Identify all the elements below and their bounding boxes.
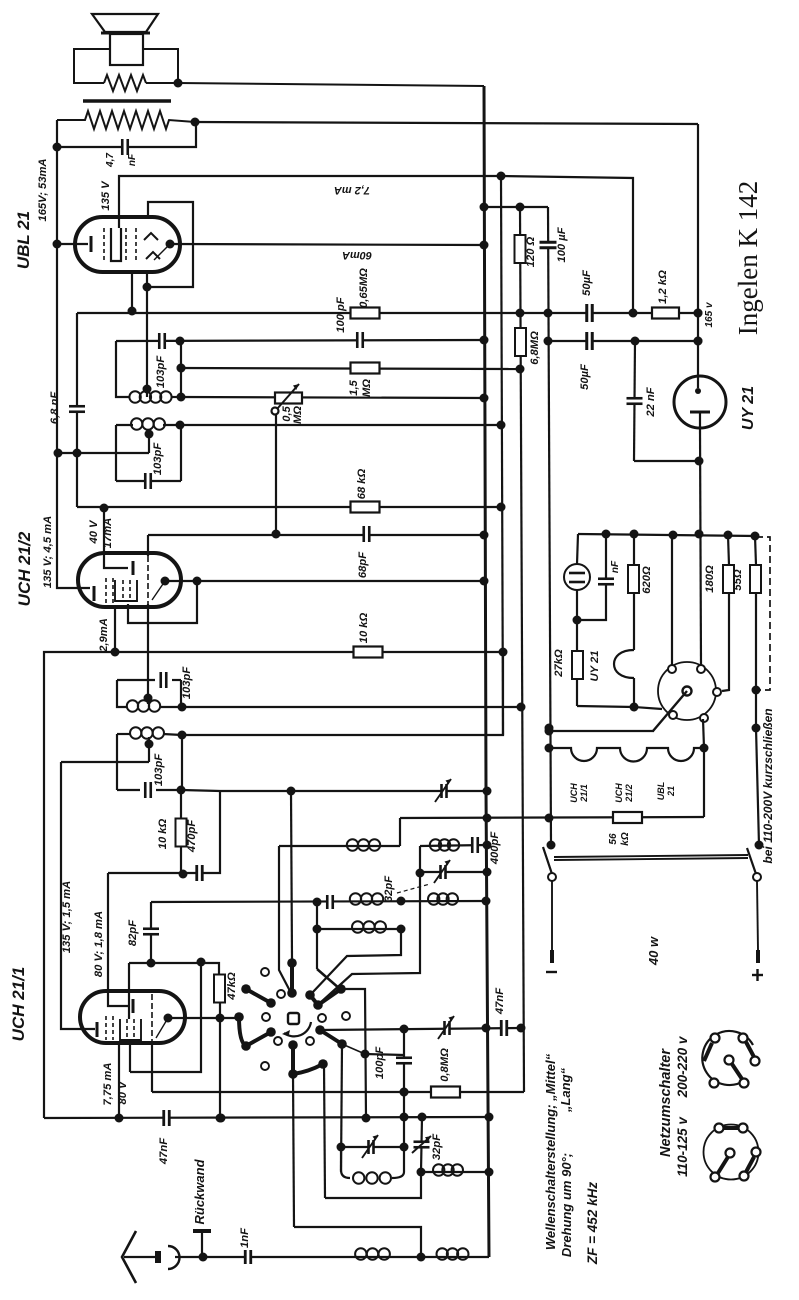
wire triode anode row y581 xyxy=(165,580,484,582)
tube UCH 21/1 xyxy=(80,991,185,1043)
svg-text:180Ω: 180Ω xyxy=(704,565,716,593)
plus terminal xyxy=(752,974,763,976)
heater chain humps xyxy=(549,748,704,762)
wire row y461 xyxy=(634,460,699,462)
resistor 10kΩ grid xyxy=(180,790,182,819)
svg-text:UCH 21/2: UCH 21/2 xyxy=(15,531,34,606)
capacitor nF heater xyxy=(577,534,606,620)
UY21 filament dot xyxy=(695,388,701,394)
wire column x698 rectifier xyxy=(697,124,699,376)
svg-text:MΩ: MΩ xyxy=(361,379,373,397)
capacitor 47nF AVC xyxy=(500,1019,508,1037)
svg-text:Drehung um 90°;: Drehung um 90°; xyxy=(559,1153,574,1257)
UBL screen box xyxy=(111,228,121,261)
svg-text:22 nF: 22 nF xyxy=(645,386,657,417)
svg-text:UCH: UCH xyxy=(614,783,624,803)
UCH2 grid box xyxy=(115,580,137,601)
wire row y1054 xyxy=(365,1054,404,1055)
svg-text:400pF: 400pF xyxy=(489,831,501,865)
resistor 27kΩ xyxy=(576,620,578,651)
capacitor 103pF T1p xyxy=(144,781,152,799)
svg-text:UY 21: UY 21 xyxy=(740,386,757,430)
svg-text:68 kΩ: 68 kΩ xyxy=(356,468,368,499)
svg-text:4,7: 4,7 xyxy=(105,153,116,168)
wire row y1227 xyxy=(294,1227,421,1257)
wire 4.7nF bypass loop xyxy=(57,122,196,147)
UBL diode plates xyxy=(144,233,158,240)
svg-text:32pF: 32pF xyxy=(383,875,395,902)
wire 55R to switch xyxy=(756,728,759,845)
antenna symbol xyxy=(122,1231,136,1283)
trimmer row1028 xyxy=(444,1020,451,1036)
tap wire T1p to cathode xyxy=(148,737,150,762)
svg-text:620Ω: 620Ω xyxy=(641,566,653,594)
resistor 180Ω xyxy=(728,535,729,565)
svg-text:UCH 21/1: UCH 21/1 xyxy=(9,967,28,1042)
wire 470pF row y873 xyxy=(108,791,220,873)
capacitor 103pF IF2sec xyxy=(158,332,166,350)
svg-text:80 V: 80 V xyxy=(117,1080,129,1105)
svg-text:165V; 53mA: 165V; 53mA xyxy=(37,158,49,221)
wire contact down x325 xyxy=(324,1064,325,1198)
wire row y929 xyxy=(317,928,401,930)
svg-text:Ingelen K 142: Ingelen K 142 xyxy=(733,181,763,335)
loudspeaker LS xyxy=(92,14,158,32)
UBL cathode wire xyxy=(57,243,88,245)
wire UCH2 screen x148 xyxy=(147,535,149,556)
UCH1 grid top lead xyxy=(128,963,130,1019)
wire anode row y1018 xyxy=(168,1017,239,1019)
link contact 317-340 xyxy=(317,969,340,989)
resistor 620Ω xyxy=(633,534,635,565)
selector plug 200-220V xyxy=(702,1031,753,1085)
coil L-ant input1 xyxy=(355,1248,366,1259)
resistor 0,8MΩ xyxy=(431,1087,460,1098)
wire osc row y846 right xyxy=(420,845,487,846)
svg-text:UCH: UCH xyxy=(569,783,579,803)
svg-text:Rückwand: Rückwand xyxy=(192,1158,207,1224)
svg-text:100 µF: 100 µF xyxy=(556,226,568,262)
dashed shorting link xyxy=(756,537,770,690)
wire triode anode lead x104 xyxy=(104,508,128,568)
svg-text:MΩ: MΩ xyxy=(292,406,304,424)
resistor voice-coil zigzag xyxy=(104,75,146,91)
wire antenna row y1257 xyxy=(175,1256,489,1258)
capacitor 1nF xyxy=(244,1249,252,1265)
svg-text:135 V; 4,5 mA: 135 V; 4,5 mA xyxy=(42,516,54,588)
UCH1 grid box xyxy=(120,1019,141,1040)
mains switch right pole xyxy=(755,841,764,850)
wire 47k to row1018 xyxy=(219,1002,221,1118)
wire row y706 xyxy=(577,706,662,709)
wire contact down x341 xyxy=(341,1044,342,1172)
tube UY 21 xyxy=(674,376,726,428)
svg-text:135 V: 135 V xyxy=(100,180,112,211)
wire UBL anode row y245 xyxy=(170,244,484,245)
svg-text:1nF: 1nF xyxy=(239,1227,251,1248)
resistor 68kΩ xyxy=(351,502,380,513)
svg-text:21/2: 21/2 xyxy=(624,784,634,803)
svg-text:50µF: 50µF xyxy=(581,269,593,296)
UBL anode loop xyxy=(147,202,193,287)
wire triode grid loop xyxy=(128,581,197,623)
rotor segment C elbow xyxy=(239,1017,271,1046)
chassis bar xyxy=(83,99,171,103)
wire UBL pin x147 to IF coil xyxy=(146,272,148,397)
trimmer row790 xyxy=(441,783,448,799)
rotor segment E xyxy=(320,1030,342,1044)
UBL grid dashes xyxy=(103,228,105,262)
IF tank T2 secondary loop xyxy=(116,341,130,397)
capacitor 4,7nF xyxy=(121,138,129,156)
svg-text:56: 56 xyxy=(608,833,619,845)
svg-text:165 v: 165 v xyxy=(704,301,715,327)
wire volume row y398 xyxy=(181,397,484,398)
svg-text:bei 110-200V kurzschließen: bei 110-200V kurzschließen xyxy=(761,708,775,863)
UCH1 shield pin x152 xyxy=(151,1043,153,1092)
IF tank T1 secondary loop xyxy=(117,680,127,707)
svg-text:ZF = 452 kHz: ZF = 452 kHz xyxy=(585,1182,600,1265)
svg-text:0,8MΩ: 0,8MΩ xyxy=(439,1048,451,1082)
svg-text:0,65MΩ: 0,65MΩ xyxy=(358,268,370,308)
svg-text:47nF: 47nF xyxy=(494,987,506,1015)
wire B+ top to rectifier column xyxy=(195,122,698,124)
svg-text:27kΩ: 27kΩ xyxy=(553,649,565,678)
trimmer 32pF vertical xyxy=(421,1117,422,1172)
junction bypass left xyxy=(53,143,62,152)
svg-text:68pF: 68pF xyxy=(357,551,369,578)
svg-text:21: 21 xyxy=(666,786,676,797)
UY21 heater hook xyxy=(614,650,634,678)
voltage selector rotor xyxy=(658,662,716,720)
svg-text:47nF: 47nF xyxy=(158,1137,170,1165)
svg-text:1,2 kΩ: 1,2 kΩ xyxy=(657,270,669,304)
IF tank T2 primary loop xyxy=(115,425,117,481)
capacitor 103pF T2p xyxy=(144,472,152,490)
UCH1 pin x119 xyxy=(118,1043,120,1118)
svg-text:Netzumschalter: Netzumschalter xyxy=(658,1048,674,1157)
wire rotor row y731 xyxy=(549,730,654,732)
wire cathode row y453 xyxy=(58,452,149,454)
svg-text:UBL 21: UBL 21 xyxy=(14,211,33,269)
svg-text:21/1: 21/1 xyxy=(579,784,589,803)
resistor 1,2kΩ xyxy=(652,308,679,319)
svg-text:55Ω: 55Ω xyxy=(732,569,744,590)
capacitor 82pF xyxy=(142,928,160,936)
UCH2 triode anode junction xyxy=(161,577,170,586)
capacitor 470pF xyxy=(196,864,204,882)
UCH1 cathode bar xyxy=(96,1022,99,1037)
coil L-T1s xyxy=(127,700,138,711)
capacitor 103pF T1s xyxy=(160,671,168,689)
wire feed x279 xyxy=(279,846,290,991)
capacitor 100pF osc xyxy=(403,1029,405,1172)
svg-text:6,8 nF: 6,8 nF xyxy=(49,391,61,424)
wire feed x291 xyxy=(291,791,292,959)
wire cap row y340 xyxy=(116,340,484,341)
svg-text:10 kΩ: 10 kΩ xyxy=(358,612,370,643)
resistor 6,8MΩ xyxy=(515,328,526,356)
svg-text:103pF: 103pF xyxy=(181,666,193,699)
resistor 56kΩ xyxy=(613,812,642,823)
capacitor 50µF lower xyxy=(586,331,594,351)
mains cord double line xyxy=(554,855,748,857)
svg-text:17mA: 17mA xyxy=(102,518,114,548)
wire row y790 xyxy=(182,790,487,791)
wire switch feed x401 xyxy=(312,929,401,993)
svg-text:2,9mA: 2,9mA xyxy=(98,618,110,653)
band switch contact circles xyxy=(261,968,269,976)
wire diag to x365 xyxy=(342,1044,365,1054)
capacitor 100µF xyxy=(539,241,558,249)
svg-text:„Lang“: „Lang“ xyxy=(558,1067,573,1113)
wire column x501 xyxy=(501,176,503,735)
junction field coil right xyxy=(191,118,200,127)
coil L-ant2 xyxy=(428,893,439,904)
back panel Rueckwand terminal xyxy=(193,1229,211,1233)
wire grid row y963 xyxy=(129,963,219,975)
trimmer osc tank xyxy=(368,1139,375,1155)
potentiometer 0,5MΩ xyxy=(275,393,302,404)
bus chassis thick xyxy=(484,86,489,1257)
band switch rotation arrow xyxy=(284,1022,311,1036)
wire pot wiper x276 xyxy=(275,414,277,534)
svg-text:103pF: 103pF xyxy=(153,753,165,786)
UY21 cathode bar xyxy=(690,411,710,414)
UCH2 grid dashes xyxy=(105,578,107,603)
capacitor 400pF xyxy=(471,836,479,854)
heater box right side xyxy=(703,748,705,817)
wire back-panel branch x201 xyxy=(130,962,201,1072)
decoupling can capacitor xyxy=(577,534,578,564)
resistor 0,65MΩ xyxy=(351,308,380,319)
wire grid row y735 xyxy=(182,734,500,736)
svg-text:1,5: 1,5 xyxy=(348,379,360,395)
capacitor 68pF xyxy=(363,525,371,543)
wire diode-load row y368 xyxy=(181,368,520,369)
svg-text:50µF: 50µF xyxy=(579,363,591,390)
UCH2 anode bar xyxy=(132,561,135,575)
svg-text:47kΩ: 47kΩ xyxy=(226,972,238,1001)
coil L-ant input2 xyxy=(437,1248,448,1259)
svg-text:6,8MΩ: 6,8MΩ xyxy=(529,331,541,365)
wire left rail x57 xyxy=(57,120,90,588)
wire row y1092 xyxy=(152,1091,524,1093)
wire 135V screen lead xyxy=(119,176,633,313)
wire to output bus xyxy=(178,83,484,86)
wire AVC row y707 xyxy=(182,706,521,708)
svg-text:470pF: 470pF xyxy=(186,819,198,853)
bus heater y534 xyxy=(578,534,756,536)
svg-text:32pF: 32pF xyxy=(431,1133,443,1160)
svg-text:103pF: 103pF xyxy=(155,355,167,388)
wire contact E row y1028 xyxy=(320,1028,521,1030)
wire ant row y902 xyxy=(151,901,486,902)
resistor 1,5MΩ xyxy=(351,363,380,374)
capacitor 50µF upper xyxy=(586,303,594,323)
band switch center xyxy=(288,1013,299,1024)
rotor segment B xyxy=(246,989,271,1003)
resistor field-coil zigzag xyxy=(57,111,195,129)
junctions row313 xyxy=(516,309,525,318)
UCH2 cathode bar xyxy=(93,586,96,601)
UCH1 anode bar xyxy=(132,999,135,1013)
svg-text:82pF: 82pF xyxy=(127,919,139,946)
wire grid row y313 xyxy=(77,312,698,314)
wire UBL pin x132 xyxy=(131,272,133,311)
rotor segment D vee xyxy=(310,989,341,1005)
coil L-T2s xyxy=(129,391,140,402)
capacitor 6,8nF xyxy=(76,313,78,507)
wire row y1172 coil xyxy=(421,1171,489,1173)
tap wire T2p xyxy=(148,431,150,453)
svg-text:Wellenschalterstellung; „Mitte: Wellenschalterstellung; „Mittel“ xyxy=(543,1053,558,1250)
wire column x548 xyxy=(548,207,551,845)
svg-text:nF: nF xyxy=(610,560,621,573)
wire row y207 xyxy=(484,206,548,208)
wire osc row y846 left xyxy=(279,845,400,847)
resistor 55Ω xyxy=(755,536,756,565)
wire contact to heater box xyxy=(703,719,704,748)
svg-text:120 Ω: 120 Ω xyxy=(525,236,537,267)
wire elco row y341 right xyxy=(548,340,698,342)
svg-text:7,2 mA: 7,2 mA xyxy=(334,184,370,196)
wire x503 link xyxy=(500,652,503,735)
wire cathode row y652 and left rail x44 xyxy=(44,652,503,1118)
resistor 10kΩ IF xyxy=(354,647,383,658)
svg-text:kΩ: kΩ xyxy=(620,832,631,846)
svg-text:nF: nF xyxy=(127,153,138,166)
UCH1 grid dashes xyxy=(105,1016,107,1040)
svg-text:100 pF: 100 pF xyxy=(335,296,347,333)
wire UCH2 cathode lead x115 xyxy=(114,607,116,652)
resistor 120Ω xyxy=(515,235,526,263)
svg-text:103pF: 103pF xyxy=(152,442,164,475)
capacitor 47nF grid xyxy=(163,1109,171,1127)
svg-text:UBL: UBL xyxy=(656,782,666,801)
wire screen row y535 xyxy=(148,534,484,536)
output transformer loop xyxy=(74,49,110,83)
wire tap row y762 xyxy=(61,761,149,763)
rotor arm xyxy=(653,691,687,731)
wire row y1198 xyxy=(325,1172,421,1198)
coil L-ant1 xyxy=(350,893,361,904)
wire switch feed x672 xyxy=(671,535,673,665)
coil L-osc2 xyxy=(430,839,441,850)
wire switch feed x317 xyxy=(316,902,318,969)
wire row y1118 xyxy=(44,1117,489,1118)
capacitor 100pF xyxy=(356,331,364,349)
UBL cathode bar xyxy=(90,236,93,252)
mains switch left pole xyxy=(547,841,556,850)
svg-text:60mA: 60mA xyxy=(342,249,372,261)
trimmer 32pF osc xyxy=(440,864,447,880)
coil L-osc1 xyxy=(347,839,358,850)
UCH1 triode anode junction xyxy=(164,1014,173,1023)
wire cathode rail x61 xyxy=(61,762,95,1029)
coil L-ant3 xyxy=(352,921,363,932)
junction speaker-transformer xyxy=(174,79,183,88)
svg-text:40 V: 40 V xyxy=(88,519,100,545)
svg-text:135 V; 1,5 mA: 135 V; 1,5 mA xyxy=(61,881,73,953)
osc tank trimmer row y1147 xyxy=(341,1146,404,1148)
wire heater row y818 xyxy=(400,817,704,818)
wire 82pF branch xyxy=(150,902,152,963)
selector plug 110-125V xyxy=(704,1125,759,1180)
svg-text:7,75 mA: 7,75 mA xyxy=(102,1063,114,1106)
svg-text:UY 21: UY 21 xyxy=(589,651,601,682)
wire AVC column x520 xyxy=(520,207,524,1092)
wire anode lead x108 xyxy=(108,873,128,1006)
wire contact to x365 xyxy=(341,989,366,1118)
wire trimmer node x420 xyxy=(320,846,420,1003)
tube UBL 21 xyxy=(75,217,180,272)
tube UCH 21/2 xyxy=(78,553,181,607)
rotor segment F xyxy=(293,1045,323,1074)
wire AVC row y507 xyxy=(77,506,501,508)
UCH2 shield dash xyxy=(147,556,149,604)
coil L-osc3 xyxy=(433,1164,444,1175)
svg-text:10 kΩ: 10 kΩ xyxy=(157,818,169,849)
capacitor fixed row902 xyxy=(326,894,334,910)
svg-text:100pF: 100pF xyxy=(374,1046,386,1079)
IF tank T1 primary xyxy=(117,733,130,735)
UCH1 shield dash xyxy=(151,994,153,1042)
wire x400 to row818 xyxy=(399,818,401,846)
wire contact F down x294 xyxy=(293,1074,294,1227)
coil L-T2p xyxy=(131,418,142,429)
osc tank box and coil xyxy=(341,1147,350,1178)
wire trimmer row y872 xyxy=(420,871,487,873)
rotor segment A xyxy=(290,963,294,993)
svg-text:40 w: 40 w xyxy=(646,936,661,966)
resistor 47kΩ xyxy=(214,975,225,1003)
svg-text:80 V; 1,8 mA: 80 V; 1,8 mA xyxy=(93,911,105,977)
UBL anode junction xyxy=(166,240,175,249)
svg-text:110-125 v: 110-125 v xyxy=(675,1116,690,1177)
wire row y425 xyxy=(180,424,501,426)
capacitor 22nF xyxy=(634,341,635,461)
wire UCH1 pin x130 xyxy=(129,1043,131,1072)
coil L-T1p xyxy=(130,727,141,738)
svg-text:200-220 v: 200-220 v xyxy=(675,1035,690,1098)
wire UY21 cathode down xyxy=(700,428,701,665)
